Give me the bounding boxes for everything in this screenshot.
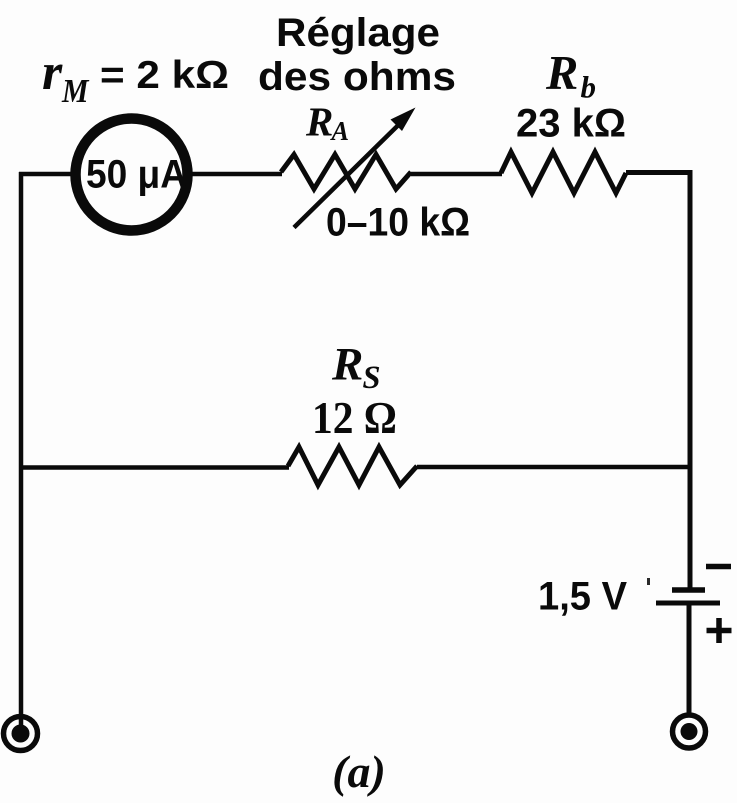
label rM = 2 kOhm	[42, 44, 229, 110]
wire RA to Rb	[411, 172, 502, 177]
label 0-10 kOhm	[326, 201, 470, 245]
battery plus sign	[707, 618, 732, 643]
wire battery to right terminal	[687, 603, 692, 716]
resistor RA (rheostat zigzag)	[281, 155, 411, 190]
label Rb	[545, 47, 596, 105]
resistor Rb (zigzag)	[501, 152, 626, 193]
label (a)	[332, 746, 386, 797]
battery B1 short negative plate	[672, 587, 705, 593]
rheostat arrow	[294, 108, 416, 228]
ammeter M1 (50 uA meter circle)	[76, 119, 188, 231]
svg-text:23 kΩ: 23 kΩ	[516, 102, 626, 146]
terminal right	[673, 715, 706, 748]
battery B1 long positive plate	[656, 601, 720, 606]
wire top left horizontal	[19, 172, 77, 177]
svg-text:b: b	[581, 70, 597, 105]
wire middle right	[417, 465, 690, 470]
terminal left	[4, 717, 38, 751]
svg-text:50 μA: 50 μA	[86, 153, 187, 197]
svg-text:des ohms: des ohms	[258, 55, 456, 99]
label RS	[331, 339, 381, 397]
battery minus sign	[706, 564, 731, 570]
wire Rb to top right corner and down	[626, 173, 690, 590]
label 12 Ohm	[312, 392, 397, 443]
svg-text:r: r	[42, 44, 63, 101]
svg-text:R: R	[305, 99, 333, 145]
svg-text:1,5 V: 1,5 V	[538, 575, 627, 619]
wire middle left	[19, 465, 289, 470]
svg-text:(a): (a)	[332, 746, 386, 797]
wire left vertical	[19, 172, 24, 725]
svg-text:= 2 kΩ: = 2 kΩ	[100, 54, 229, 97]
svg-text:0–10 kΩ: 0–10 kΩ	[326, 201, 470, 245]
resistor RS (zigzag)	[288, 447, 417, 485]
svg-text:R: R	[331, 339, 363, 391]
label 50 uA	[86, 153, 187, 197]
label 23 kOhm	[516, 102, 626, 146]
label 1,5 V	[538, 575, 627, 619]
svg-text:R: R	[545, 47, 578, 100]
wire meter to RA	[187, 172, 282, 177]
label Reglage des ohms	[258, 11, 456, 99]
svg-text:12 Ω: 12 Ω	[312, 392, 397, 443]
svg-text:Réglage: Réglage	[276, 11, 440, 55]
svg-text:S: S	[363, 360, 381, 396]
label RA	[305, 99, 349, 147]
svg-text:A: A	[330, 116, 349, 146]
svg-text:M: M	[61, 73, 90, 110]
scan speck near battery	[647, 578, 650, 585]
